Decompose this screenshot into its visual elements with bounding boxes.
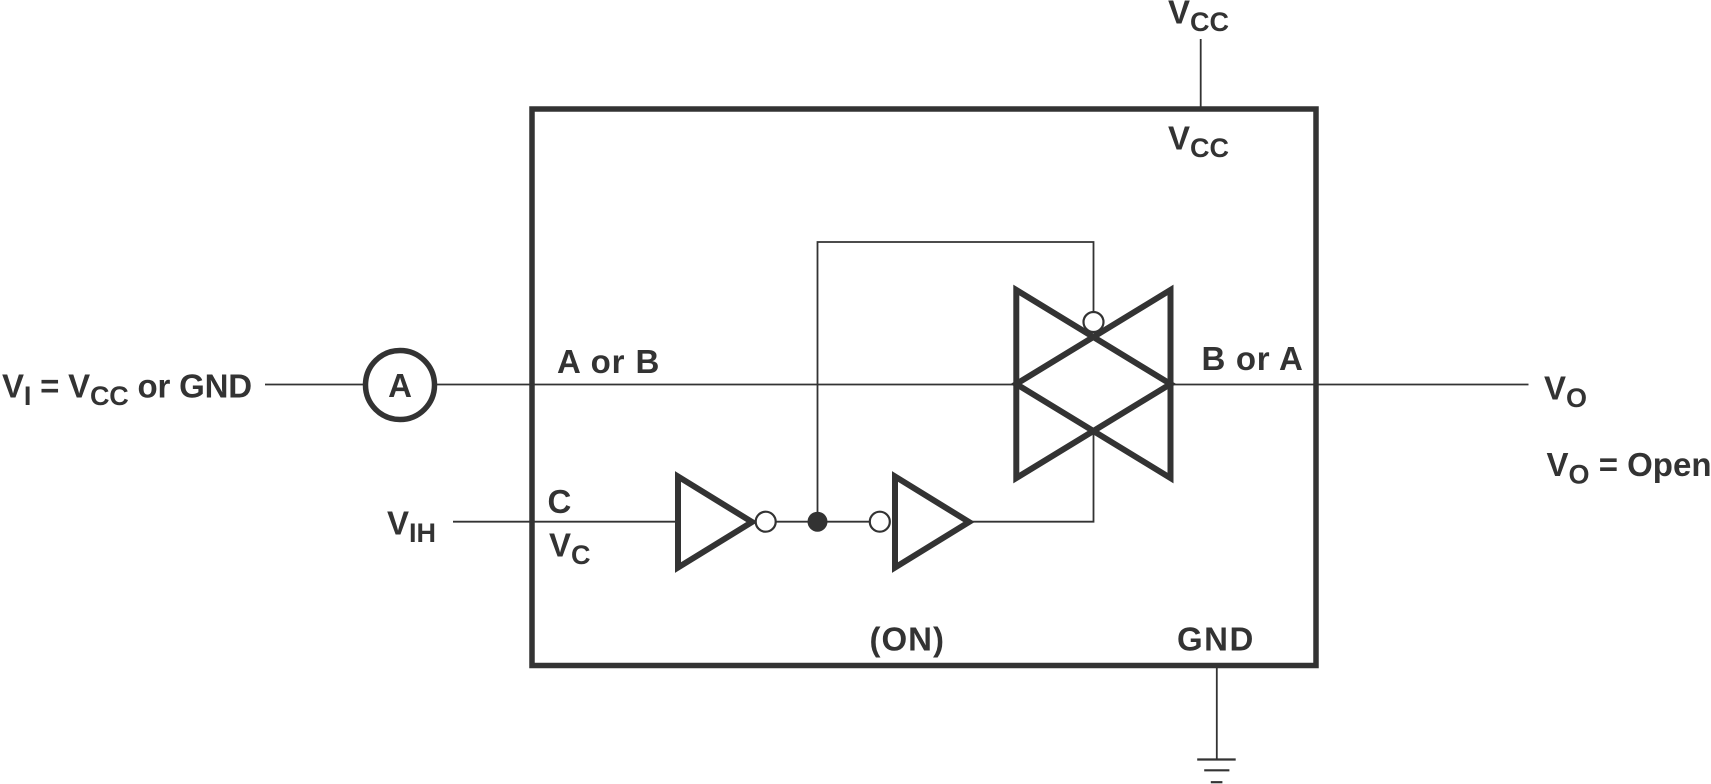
DUT box U1 outline bbox=[532, 109, 1316, 666]
junction dot node VC bbox=[808, 512, 828, 532]
svg-text:B or A: B or A bbox=[1202, 340, 1304, 377]
wire GND pin to ground bbox=[1216, 668, 1218, 760]
ground bbox=[1197, 760, 1236, 783]
wire junction to gate P-control (top rail) bbox=[818, 242, 1094, 512]
wire VI source to ammeter bbox=[265, 384, 366, 386]
svg-text:VO = Open: VO = Open bbox=[1547, 446, 1711, 490]
svg-text:VO: VO bbox=[1544, 369, 1587, 413]
wire VCC supply to box pin bbox=[1200, 39, 1202, 107]
svg-text:A or B: A or B bbox=[557, 343, 660, 380]
wire gate B-port to VO bbox=[1171, 384, 1529, 386]
wire ammeter to transmission gate A-port bbox=[435, 384, 1017, 386]
svg-text:C: C bbox=[548, 483, 572, 520]
svg-text:VIH: VIH bbox=[387, 505, 436, 549]
wire buffer U3 output to gate N-control bbox=[969, 431, 1094, 522]
ammeter A bbox=[366, 351, 435, 420]
svg-text:A: A bbox=[388, 367, 412, 404]
svg-text:VI = VCC or GND: VI = VCC or GND bbox=[2, 368, 252, 412]
svg-text:(ON): (ON) bbox=[870, 621, 945, 658]
svg-text:GND: GND bbox=[1177, 621, 1255, 658]
svg-text:VCC: VCC bbox=[1168, 120, 1229, 164]
svg-text:VC: VC bbox=[549, 526, 591, 570]
svg-text:VCC: VCC bbox=[1168, 0, 1229, 37]
wire VIH to inverter U2 input bbox=[453, 521, 678, 523]
transmission gate Q1 bbox=[1016, 290, 1170, 478]
inverter U2 bbox=[678, 477, 776, 568]
buffer U3 with input bubble bbox=[870, 477, 969, 568]
wire inverter U2 output to junction bbox=[777, 521, 870, 523]
